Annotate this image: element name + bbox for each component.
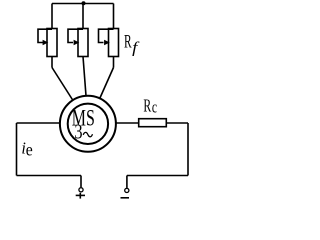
wire bottom right	[127, 175, 188, 177]
svg-text:R: R	[143, 95, 151, 115]
wire middle to motor	[83, 57, 86, 96]
svg-text:3: 3	[74, 119, 82, 143]
svg-text:c: c	[152, 98, 158, 117]
wire top bus	[52, 3, 114, 5]
terminal minus circle	[125, 188, 129, 192]
wire diagonal right to motor	[100, 68, 114, 100]
plus sign	[76, 193, 85, 199]
rheostat Rf (middle unit)	[68, 29, 88, 57]
label ie	[21, 139, 32, 160]
wire right rail	[187, 123, 189, 176]
wire diagonal left to motor	[52, 68, 73, 101]
label Rc	[143, 95, 157, 116]
rheostat Rf (left unit)	[38, 29, 57, 57]
wire top stub middle	[82, 4, 84, 29]
svg-text:R: R	[124, 32, 132, 53]
wire top stub left	[51, 4, 53, 29]
wire motor left	[17, 122, 61, 124]
wire bottom left	[17, 175, 82, 177]
wire to plus terminal	[80, 176, 82, 188]
label Rf	[124, 32, 141, 57]
wire motor right	[116, 122, 139, 124]
wire resistor to right rail	[166, 122, 188, 124]
terminal plus circle	[79, 188, 83, 192]
svg-text:e: e	[26, 140, 33, 160]
wire bottom stub left	[51, 57, 53, 68]
wire bottom stub right	[113, 57, 115, 68]
wire top stub right	[113, 4, 115, 29]
wire left rail	[16, 123, 18, 176]
node junction dot	[82, 1, 86, 5]
wire to minus terminal	[126, 176, 128, 188]
resistor Rc	[139, 119, 167, 127]
rheostat Rf (right unit)	[99, 29, 119, 57]
motor MS 3-phase	[60, 96, 116, 152]
minus sign	[121, 197, 130, 199]
